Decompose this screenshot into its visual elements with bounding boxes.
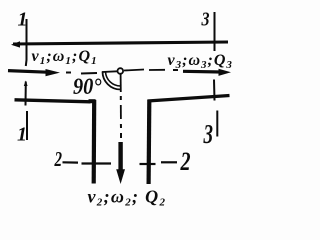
svg-text:v2;ω2; Q2: v2;ω2; Q2 <box>88 187 167 209</box>
svg-text:2: 2 <box>54 147 63 171</box>
svg-text:1: 1 <box>18 9 28 31</box>
section line 2 right dash <box>161 161 177 163</box>
section line 3 upper tick <box>214 12 216 51</box>
section line 3 lower tick <box>216 111 218 137</box>
section line 2 tick crossing left wall <box>82 162 112 164</box>
arrow tip at left end of top wall <box>11 41 20 47</box>
svg-text:3: 3 <box>201 9 210 31</box>
svg-text:v1;ω1;Q1: v1;ω1;Q1 <box>32 48 98 67</box>
section line 3 tick crossing wall <box>213 80 216 101</box>
section line 2 tick crossing right wall <box>140 163 156 165</box>
section line 1 lower tick <box>26 111 28 140</box>
section line 1 lower tick crossing wall <box>25 82 27 106</box>
node circle at junction <box>118 68 124 74</box>
svg-text:2: 2 <box>180 147 191 176</box>
bottom wall left + left branch wall <box>15 100 91 102</box>
centerline right dash-dot <box>124 70 144 71</box>
section line 2 left dash <box>63 161 79 164</box>
section line 1 upper tick <box>25 19 28 66</box>
flow arrow section 2 (down) <box>118 142 122 171</box>
svg-text:v3;ω3;Q3: v3;ω3;Q3 <box>168 52 233 71</box>
svg-text:1: 1 <box>17 124 27 146</box>
svg-text:90°: 90° <box>73 74 102 99</box>
vertical centerline dash-dot <box>120 75 122 93</box>
bottom wall right + right branch wall <box>147 100 152 184</box>
flow arrow section 1 <box>8 71 47 73</box>
flow arrow section 3 <box>183 70 221 74</box>
90 degree arc inner <box>106 72 121 86</box>
90 degree arc outer <box>103 72 121 90</box>
svg-text:3: 3 <box>203 119 213 149</box>
top wall of main pipe <box>13 42 228 44</box>
centerline left dash-dot <box>66 72 71 74</box>
